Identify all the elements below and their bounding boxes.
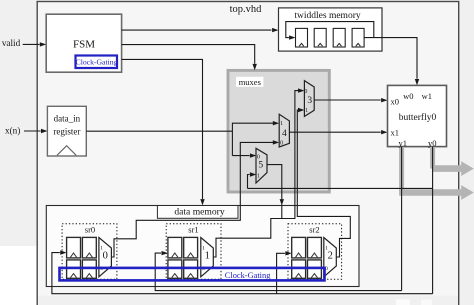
svg-text:w1: w1 <box>422 91 432 101</box>
gray output arrow upper (from y0) <box>432 148 474 176</box>
register sr1 cell 1 top <box>184 237 198 258</box>
wire FSM to muxes <box>122 45 257 71</box>
register sr0 cell 0 bottom <box>67 260 81 278</box>
register W0 <box>296 28 308 47</box>
register W1 <box>314 28 326 47</box>
svg-text:1: 1 <box>202 246 205 252</box>
data_in register block <box>47 106 86 156</box>
bottom feedback wire to sr1 (L2) <box>155 251 401 291</box>
svg-text:1: 1 <box>280 121 283 127</box>
svg-text:data_in: data_in <box>54 113 81 123</box>
svg-text:FSM: FSM <box>73 38 95 50</box>
mux 4 <box>279 114 289 147</box>
register W2 <box>333 28 345 47</box>
twiddles feedback loop <box>286 22 374 40</box>
register sr1 cell 0 bottom <box>168 260 182 278</box>
FSM block <box>46 14 121 72</box>
svg-text:0: 0 <box>304 89 307 95</box>
svg-text:top.vhd: top.vhd <box>230 4 263 15</box>
register sr1 cell 1 bottom <box>184 260 198 278</box>
sr2 input arrow from bottom feedback line <box>277 251 292 294</box>
svg-text:3: 3 <box>307 96 312 106</box>
FSM clock-gating tag <box>76 56 118 69</box>
svg-text:muxes: muxes <box>239 77 261 87</box>
valid input <box>2 38 46 48</box>
svg-text:twiddles memory: twiddles memory <box>294 11 360 21</box>
mux3 input wires from sr1/sr2 <box>213 88 350 257</box>
svg-text:0: 0 <box>280 141 283 147</box>
svg-text:1: 1 <box>205 251 210 262</box>
bottom gray strip (figure crop) <box>38 296 458 305</box>
sr0 dashed group <box>62 224 117 280</box>
twiddles registers <box>296 28 365 47</box>
butterfly y0 wire <box>248 147 433 294</box>
butterfly y1 wire <box>401 147 403 291</box>
sr2 dashed group <box>288 224 342 280</box>
twiddles memory block <box>279 8 383 51</box>
svg-text:x0: x0 <box>390 96 399 106</box>
svg-text:w0: w0 <box>403 91 413 101</box>
mux 5 <box>256 148 267 183</box>
sr2 mux 2 <box>324 238 337 277</box>
svg-text:valid: valid <box>2 38 21 48</box>
wire twiddles to butterfly <box>364 38 419 86</box>
svg-text:butterfly0: butterfly0 <box>399 112 437 123</box>
svg-text:sr1: sr1 <box>188 225 198 235</box>
mux4 input 0 wire from sr0 <box>111 140 279 257</box>
svg-text:2: 2 <box>328 251 333 262</box>
svg-text:1: 1 <box>305 108 308 114</box>
svg-text:5: 5 <box>258 161 263 171</box>
svg-text:1: 1 <box>257 173 260 179</box>
sr2 registers <box>292 237 322 278</box>
svg-text:sr0: sr0 <box>85 225 95 235</box>
register sr0 cell 0 top <box>67 237 81 258</box>
mux3 output to butterfly x0 <box>314 98 387 102</box>
svg-text:sr2: sr2 <box>309 225 319 235</box>
gray output arrow lower (from y1) <box>399 148 474 200</box>
butterfly0 block <box>388 85 447 148</box>
register sr2 cell 1 bottom <box>308 260 322 278</box>
x(n) input <box>5 125 47 135</box>
svg-text:y0: y0 <box>428 138 437 148</box>
mux4 output to butterfly x1 <box>289 130 387 134</box>
svg-text:0: 0 <box>103 251 108 262</box>
register sr2 cell 0 bottom <box>292 260 306 278</box>
register sr0 cell 1 top <box>82 237 96 258</box>
register sr0 cell 1 bottom <box>82 260 96 278</box>
svg-text:0: 0 <box>257 154 260 160</box>
register sr2 cell 0 top <box>292 237 306 258</box>
svg-text:4: 4 <box>282 129 287 139</box>
wire data_in to mux4 and mux5 <box>86 121 279 158</box>
mux 3 <box>304 81 314 117</box>
wire FSM to data memory <box>122 59 205 205</box>
register sr1 cell 0 top <box>168 237 182 258</box>
register W3 <box>352 28 364 47</box>
sr0 mux 0 <box>99 238 112 277</box>
sr0 registers <box>67 237 97 278</box>
sr1 dashed group <box>166 224 221 280</box>
mux5 input 1 from y0 feedback <box>248 172 257 188</box>
register sr2 cell 1 top <box>308 237 322 258</box>
mux5 output into data memory <box>267 165 284 219</box>
muxes label <box>236 77 263 87</box>
sr1 mux 1 <box>201 238 214 277</box>
muxes block <box>228 70 329 192</box>
sr1 registers <box>168 237 198 278</box>
svg-text:1: 1 <box>100 246 103 252</box>
svg-text:x1: x1 <box>390 127 399 137</box>
svg-text:1: 1 <box>325 246 328 252</box>
bottom feedback wire to sr0 (L3) <box>52 250 433 293</box>
svg-text:x(n): x(n) <box>5 125 20 135</box>
svg-text:register: register <box>53 126 80 136</box>
wire FSM to twiddles memory <box>122 28 279 32</box>
svg-text:Clock-Gating: Clock-Gating <box>225 271 271 280</box>
svg-text:Clock-Gating: Clock-Gating <box>76 58 118 67</box>
data memory block <box>46 206 359 287</box>
blue clock-gating highlight bus <box>60 268 325 281</box>
svg-text:data memory: data memory <box>174 207 225 218</box>
svg-text:y1: y1 <box>398 138 407 148</box>
